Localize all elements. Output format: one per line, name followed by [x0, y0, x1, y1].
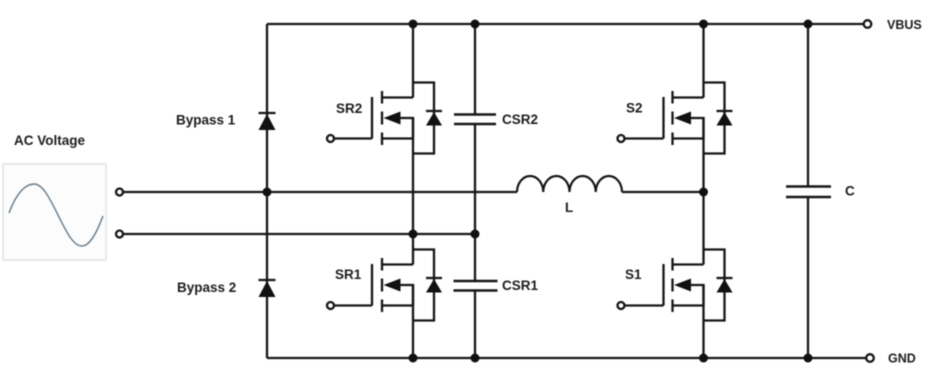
transistor S2 — [618, 83, 733, 154]
transistor S1 — [618, 250, 733, 321]
svg-text:SR1: SR1 — [335, 267, 362, 282]
wire S column upper — [702, 24, 704, 98]
wire C column lower — [807, 198, 809, 358]
svg-text:CSR1: CSR1 — [502, 278, 539, 293]
node AC terminal 1 — [116, 189, 123, 196]
capacitor CSR1 — [454, 281, 498, 291]
junction bottom rail at CSR column — [471, 354, 480, 363]
node AC terminal 2 — [116, 231, 123, 238]
svg-text:Bypass 1: Bypass 1 — [176, 113, 236, 128]
wire S column lower — [702, 285, 704, 358]
junction bottom rail at S column — [699, 354, 708, 363]
svg-text:SR2: SR2 — [336, 101, 362, 116]
wire S column middle — [702, 118, 704, 265]
junction top rail at S column — [699, 20, 708, 29]
wire CSR column middle — [474, 125, 476, 280]
svg-text:S1: S1 — [625, 267, 642, 282]
svg-text:GND: GND — [888, 352, 916, 366]
wire C column upper — [807, 24, 809, 186]
AC sine wave — [9, 184, 103, 246]
junction bottom rail at SR column — [409, 354, 418, 363]
wire top rail — [267, 23, 864, 25]
transistor SR1 — [327, 250, 442, 321]
node VBUS terminal — [864, 20, 872, 28]
junction AC line 1 at bypass column — [263, 188, 272, 197]
transistor SR2 — [327, 83, 442, 154]
wire AC line 1 right — [622, 191, 704, 193]
junction top rail at CSR column — [471, 20, 480, 29]
svg-text:L: L — [565, 200, 573, 215]
junction bottom rail at C column — [804, 354, 813, 363]
wire CSR column upper — [474, 24, 476, 114]
wire bottom rail — [267, 357, 866, 359]
junction top rail at C column — [804, 20, 813, 29]
diode Bypass 2 — [259, 280, 276, 297]
inductor L — [517, 176, 622, 192]
junction top rail at SR column — [409, 20, 418, 29]
capacitor C — [786, 187, 831, 198]
junction AC line 2 at CSR column — [471, 230, 480, 239]
svg-text:C: C — [845, 184, 855, 199]
node GND terminal — [866, 354, 874, 362]
wire AC line 2 — [124, 233, 476, 235]
junction AC line 1 at S column — [699, 188, 708, 197]
svg-text:VBUS: VBUS — [887, 18, 922, 32]
svg-text:S2: S2 — [626, 101, 643, 116]
wire bypass column — [266, 24, 268, 358]
AC source box — [3, 164, 106, 260]
svg-text:CSR2: CSR2 — [502, 112, 538, 127]
wire SR column lower — [412, 285, 414, 358]
capacitor CSR2 — [454, 115, 496, 125]
junction AC line 2 at SR column — [409, 230, 418, 239]
wire CSR column lower — [474, 292, 476, 359]
wire SR column middle — [412, 118, 414, 265]
wire AC line 1 — [124, 191, 518, 193]
wire SR column upper — [412, 24, 414, 98]
diode Bypass 1 — [259, 113, 276, 130]
svg-text:Bypass 2: Bypass 2 — [177, 280, 236, 295]
svg-text:AC Voltage: AC Voltage — [14, 133, 85, 148]
